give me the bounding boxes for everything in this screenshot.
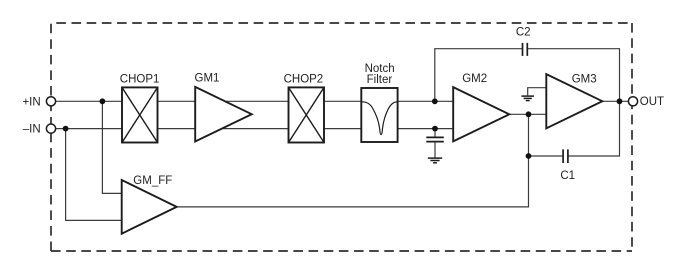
chip boundary (dashed) bottom edge (51, 250, 632, 252)
junction dot at -IN branch (63, 126, 69, 132)
svg-text:CHOP2: CHOP2 (284, 74, 324, 86)
svg-text:C1: C1 (560, 170, 575, 182)
chip boundary (dashed) left edge (50, 23, 52, 251)
wire Notch Filter to GM2 lower rail (397, 128, 454, 130)
svg-text:Filter: Filter (367, 74, 393, 86)
wire +IN branch down to GM_FF upper input (102, 101, 122, 193)
op-amp GM1 (195, 87, 252, 142)
op-amp GM_FF (feedforward) (122, 180, 177, 234)
wire GM3 output to OUT (601, 100, 629, 102)
wire notch output cap stub (upper) (434, 129, 436, 138)
junction dot at C2 tap on upper rail (432, 98, 438, 104)
junction dot at C1 tap (526, 153, 532, 159)
wire CHOP2 to Notch Filter lower rail (323, 128, 362, 130)
terminal OUT (628, 97, 637, 106)
wire GM_FF output right then up to GM2 output node (176, 114, 529, 207)
svg-text:GM3: GM3 (572, 74, 597, 86)
svg-text:OUT: OUT (640, 96, 664, 108)
svg-text:GM2: GM2 (462, 73, 487, 85)
chopper CHOP1 (122, 87, 158, 142)
svg-text:C2: C2 (516, 27, 531, 39)
chip boundary (dashed) right edge (631, 23, 633, 251)
svg-text:+IN: +IN (22, 96, 40, 108)
wire CHOP2 to Notch Filter upper rail (323, 100, 362, 102)
op-amp GM3 (546, 74, 602, 128)
op-amp GM2 (453, 87, 509, 141)
wire GM2 output to GM3 inverting input (508, 113, 547, 115)
svg-text:GM_FF: GM_FF (133, 175, 172, 187)
wire notch output cap stub (lower, to ground) (434, 142, 436, 158)
junction dot at +IN branch (100, 98, 106, 104)
wire C2 left branch (up from GM2 +input node) (435, 49, 523, 102)
wire CHOP1 to CHOP2 lower rail (passes behind GM1) (157, 128, 289, 130)
ground below notch output cap (428, 158, 442, 163)
svg-text:GM1: GM1 (195, 72, 220, 84)
capacitor C1 (563, 149, 568, 163)
wire C1 right branch (up to OUT node) (568, 101, 620, 156)
wire -IN branch down to GM_FF lower input (66, 129, 122, 221)
ground at GM3 noninverting input (521, 96, 534, 101)
junction dot at OUT node (617, 98, 623, 104)
wire -IN to CHOP1 (lower rail) (55, 128, 122, 130)
chip boundary (dashed) top edge (51, 22, 632, 24)
wire GM3 noninverting input to ground (528, 88, 547, 96)
terminal -IN (46, 124, 55, 133)
wire C1 left branch (529, 155, 564, 157)
notch filter block (361, 88, 397, 142)
capacitor C2 (523, 43, 528, 56)
svg-text:CHOP1: CHOP1 (120, 73, 160, 85)
capacitor at notch output (unlabeled) (426, 137, 444, 141)
junction dot at GM2 output node (526, 111, 532, 117)
svg-text:–IN: –IN (23, 124, 41, 136)
chopper CHOP2 (289, 87, 325, 142)
terminal +IN (46, 97, 55, 106)
wire C2 right branch (down to OUT node) (527, 49, 619, 102)
wire CHOP1 to CHOP2 upper rail (passes behind GM1) (157, 100, 289, 102)
wire Notch Filter to GM2 upper rail (397, 100, 454, 102)
junction dot at notch cap tap on lower rail (432, 126, 438, 132)
wire +IN to CHOP1 (upper rail) (55, 100, 122, 102)
